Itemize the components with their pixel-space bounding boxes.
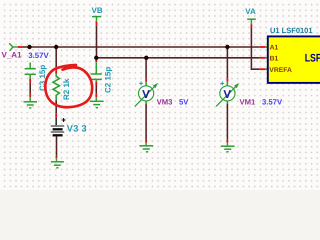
terminal VB	[92, 17, 101, 22]
pin red segment A1	[260, 46, 265, 48]
pin red segment port	[18, 46, 23, 48]
svg-text:V: V	[223, 89, 231, 101]
svg-text:VM3: VM3	[157, 97, 173, 106]
svg-text:LSF: LSF	[305, 52, 320, 64]
svg-text:V: V	[142, 89, 150, 101]
svg-text:5V: 5V	[179, 97, 189, 106]
battery V3	[51, 126, 64, 135]
svg-text:R2 1k: R2 1k	[62, 78, 71, 100]
svg-text:VREFA: VREFA	[269, 67, 292, 74]
junction node wireA-VM1	[225, 45, 229, 49]
svg-text:V3 3: V3 3	[67, 123, 87, 133]
svg-text:VM1: VM1	[240, 97, 257, 106]
wire A1 net (V_A1)	[23, 46, 260, 48]
battery bottom pin	[56, 137, 58, 156]
voltmeter VM3	[145, 58, 147, 78]
svg-text:VB: VB	[92, 6, 103, 15]
junction node wireB-VB-C2	[94, 56, 98, 60]
junction node wireB-VM3	[144, 56, 148, 60]
junction node wireA-C3	[27, 45, 31, 49]
svg-text:3.57V: 3.57V	[262, 97, 283, 106]
svg-text:B1: B1	[270, 56, 279, 63]
svg-text:V_A1: V_A1	[2, 51, 23, 60]
port V_A1	[9, 43, 18, 51]
svg-text:VA: VA	[245, 7, 256, 16]
svg-text:3.57V: 3.57V	[28, 51, 49, 60]
wire VB drop	[96, 22, 98, 26]
pin VREFA red segment	[260, 68, 265, 70]
battery plus sign	[62, 118, 66, 122]
ground C2	[90, 101, 104, 107]
pin B1 red segment	[260, 57, 265, 59]
svg-text:A1: A1	[270, 44, 279, 51]
voltmeter VM1	[226, 47, 228, 78]
annotation red circle around R2	[45, 65, 92, 107]
ground C3	[24, 102, 38, 108]
ground battery	[51, 162, 64, 168]
IC U1 LSF0101 body	[268, 36, 320, 83]
capacitor C2	[95, 60, 97, 63]
terminal VA	[247, 19, 256, 24]
svg-text:U1 LSF0101: U1 LSF0101	[270, 26, 313, 35]
junction node wireA-R2	[54, 45, 58, 49]
pin battery top	[55, 118, 57, 126]
wire B1 net (VB)	[96, 57, 259, 59]
capacitor C3	[25, 63, 36, 75]
ground VM1	[221, 146, 235, 152]
svg-text:C2 15p: C2 15p	[103, 67, 112, 93]
resistor R2	[55, 47, 57, 70]
ground VM3	[139, 146, 153, 152]
wire VA to VREFA	[250, 24, 252, 28]
